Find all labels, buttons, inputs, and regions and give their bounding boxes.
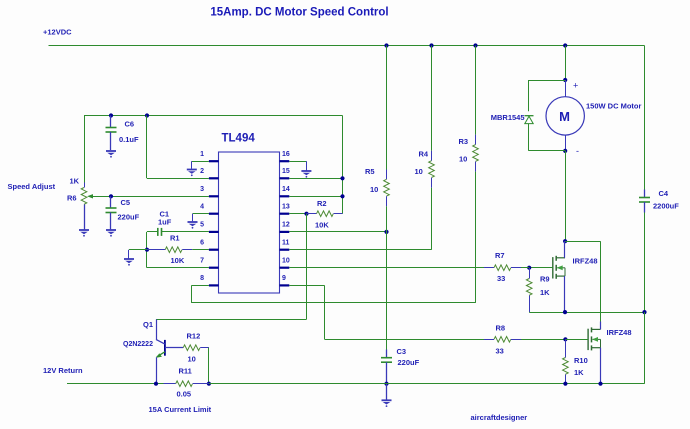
wire pin8 loop to R3 bbox=[192, 302, 476, 304]
svg-text:7: 7 bbox=[200, 258, 204, 265]
wire vref to pin2 bbox=[146, 116, 148, 179]
svg-text:5: 5 bbox=[200, 222, 204, 229]
wire feedback to Q1 bbox=[156, 319, 307, 321]
resistor R1 bbox=[165, 247, 182, 253]
wire feedback vertical bbox=[306, 214, 308, 320]
svg-text:Speed Adjust: Speed Adjust bbox=[8, 182, 56, 191]
svg-text:12V Return: 12V Return bbox=[43, 366, 83, 375]
svg-text:1K: 1K bbox=[70, 177, 80, 186]
svg-text:C4: C4 bbox=[659, 189, 669, 198]
wire M2 source bbox=[600, 348, 602, 384]
svg-text:R5: R5 bbox=[365, 167, 375, 176]
wire C4 drop bbox=[644, 46, 646, 190]
wire R2 lead right bbox=[334, 213, 343, 215]
resistor R7 bbox=[494, 265, 511, 271]
svg-text:10K: 10K bbox=[171, 256, 185, 265]
wire pin7 branch bbox=[147, 267, 209, 269]
wire R7 right bbox=[511, 267, 521, 269]
wire R6 bottom lead bbox=[84, 205, 86, 230]
resistor R11 bbox=[176, 381, 193, 387]
wire drain tie bbox=[565, 241, 600, 243]
svg-text:IRFZ48: IRFZ48 bbox=[607, 328, 632, 337]
ground R6 bbox=[79, 230, 89, 237]
svg-text:14: 14 bbox=[282, 186, 290, 193]
wire M2 gate lead bbox=[565, 339, 588, 341]
wire vref top rail bbox=[84, 115, 343, 117]
svg-text:1K: 1K bbox=[540, 288, 550, 297]
wire motor top stem bbox=[565, 80, 567, 97]
svg-text:C5: C5 bbox=[121, 198, 131, 207]
wire pin12 to R5 bbox=[289, 231, 386, 233]
svg-text:R6: R6 bbox=[67, 194, 77, 203]
svg-text:3: 3 bbox=[200, 186, 204, 193]
wire R9 bottom lead bbox=[529, 296, 531, 313]
wire R1 to pin6 bbox=[182, 249, 192, 251]
wire MBR left top bbox=[528, 80, 530, 111]
junction pin2 branch top bbox=[145, 113, 149, 117]
svg-text:R9: R9 bbox=[540, 275, 550, 284]
wire pin1 bbox=[192, 161, 209, 163]
wire 12V return rail left bbox=[67, 383, 164, 385]
resistor R5 bbox=[384, 179, 390, 196]
junction drains bbox=[563, 239, 567, 243]
wire R3 bottom bbox=[475, 162, 477, 172]
wire pin8 bbox=[192, 285, 209, 287]
svg-text:R2: R2 bbox=[317, 199, 327, 208]
junction R10 rail bbox=[563, 382, 567, 386]
ground pin1 bbox=[187, 170, 197, 177]
ground C6 bbox=[106, 151, 116, 158]
wire pin15 bbox=[289, 178, 342, 180]
ground C5 bbox=[106, 230, 116, 237]
wire motor to drain bbox=[565, 151, 567, 241]
wire pin16 bbox=[289, 161, 306, 163]
wire R12 right bbox=[200, 347, 209, 349]
wire +12VDC rail bbox=[49, 45, 645, 47]
svg-text:220uF: 220uF bbox=[118, 213, 140, 222]
svg-text:R7: R7 bbox=[495, 251, 505, 260]
wire pin4 bbox=[193, 213, 209, 215]
transistor Q1 bbox=[164, 340, 166, 356]
svg-text:4: 4 bbox=[200, 204, 204, 211]
wire vref left drop to pot bbox=[84, 116, 86, 183]
wire R1 ground jog bbox=[129, 249, 147, 251]
svg-text:R4: R4 bbox=[419, 150, 429, 159]
wire wiper to pin3 bbox=[111, 196, 209, 198]
wire pin13 bbox=[289, 213, 306, 215]
junction M2 gate bbox=[563, 337, 567, 341]
svg-text:Q2N2222: Q2N2222 bbox=[123, 341, 153, 348]
svg-text:10: 10 bbox=[415, 167, 423, 176]
wire M1 drain bbox=[564, 241, 566, 258]
wire pin14 bbox=[289, 196, 342, 198]
svg-text:R11: R11 bbox=[179, 367, 192, 376]
resistor R4 bbox=[429, 161, 435, 178]
wire R9 top lead bbox=[529, 268, 531, 279]
svg-text:16: 16 bbox=[282, 151, 290, 158]
svg-text:8: 8 bbox=[200, 275, 204, 282]
svg-text:150W DC Motor: 150W DC Motor bbox=[586, 102, 642, 111]
wire Q1 collector bbox=[156, 319, 158, 339]
svg-text:33: 33 bbox=[497, 274, 505, 283]
resistor R8 bbox=[494, 337, 511, 343]
pins 16-9 right stubs bbox=[280, 160, 290, 162]
svg-text:M: M bbox=[559, 109, 570, 124]
svg-text:15A Current Limit: 15A Current Limit bbox=[149, 405, 212, 414]
resistor R3 bbox=[473, 145, 479, 162]
svg-text:1uF: 1uF bbox=[158, 218, 172, 227]
svg-text:0.1uF: 0.1uF bbox=[119, 135, 139, 144]
resistor R12 bbox=[183, 345, 200, 351]
svg-text:220uF: 220uF bbox=[398, 358, 420, 367]
wire R8 row bbox=[325, 339, 485, 341]
wire R10 top lead bbox=[565, 339, 567, 357]
wire R4 bottom bbox=[431, 178, 433, 188]
wire 12V return rail right bbox=[193, 383, 209, 385]
svg-text:12: 12 bbox=[282, 222, 290, 229]
wire R5 top bbox=[386, 46, 388, 170]
wire Q1 base bbox=[165, 347, 183, 349]
svg-text:33: 33 bbox=[496, 347, 504, 356]
wiper arrow R6 bbox=[87, 194, 93, 198]
resistor R10 bbox=[563, 358, 569, 375]
svg-text:C6: C6 bbox=[125, 120, 135, 129]
svg-text:MBR1545: MBR1545 bbox=[491, 113, 525, 122]
svg-text:0.05: 0.05 bbox=[177, 390, 192, 399]
wire R2 lead left bbox=[307, 213, 317, 215]
resistor R6 pot bbox=[81, 188, 87, 205]
wire MBR top bbox=[529, 80, 565, 82]
wire C1 lead left bbox=[147, 231, 158, 233]
junction Q1 emitter rail bbox=[154, 382, 158, 386]
wire C1R1 left rail bbox=[146, 232, 148, 268]
junction C6 top bbox=[109, 113, 113, 117]
resistor R2 bbox=[317, 211, 334, 217]
svg-text:-: - bbox=[576, 146, 579, 156]
wire source rail bbox=[529, 312, 644, 314]
svg-text:R1: R1 bbox=[170, 234, 180, 243]
svg-text:6: 6 bbox=[200, 240, 204, 247]
diode MBR1545 bbox=[525, 115, 534, 117]
wire pin10 to R7 bbox=[289, 267, 484, 269]
svg-text:C3: C3 bbox=[397, 347, 407, 356]
wire pin11 to R4 bbox=[289, 249, 431, 251]
wire motor bottom stem bbox=[565, 135, 567, 151]
pins 1-8 left stubs bbox=[209, 160, 219, 162]
svg-text:10: 10 bbox=[282, 258, 290, 265]
svg-text:13: 13 bbox=[282, 204, 290, 211]
junction M1 source bbox=[563, 310, 567, 314]
junction R3 rail bbox=[473, 43, 477, 47]
capacitor C5 bbox=[110, 196, 112, 208]
junction R1 left bbox=[145, 248, 149, 252]
wire Q1 emitter bbox=[156, 357, 158, 383]
svg-text:1: 1 bbox=[200, 151, 204, 158]
svg-text:TL494: TL494 bbox=[222, 133, 256, 145]
ground pin16 bbox=[301, 171, 311, 178]
junction pin12-R5 bbox=[384, 230, 388, 234]
svg-text:IRFZ48: IRFZ48 bbox=[573, 257, 598, 266]
wire M1 source bbox=[564, 276, 566, 312]
wire R3 top bbox=[475, 46, 477, 135]
svg-text:R8: R8 bbox=[496, 323, 506, 332]
junction motor minus bbox=[563, 149, 567, 153]
junction pin15 bbox=[340, 176, 344, 180]
wire C3 ground stem bbox=[386, 384, 388, 400]
op-amp U1 TL494 body bbox=[219, 152, 280, 293]
junction C3 rail bbox=[384, 382, 388, 386]
capacitor C1 bbox=[157, 228, 159, 236]
ground C3 bbox=[382, 400, 392, 407]
junction R12 rail bbox=[207, 382, 211, 386]
svg-text:+: + bbox=[573, 81, 578, 91]
resistor R9 bbox=[526, 279, 532, 296]
wire bottom right riser bbox=[644, 312, 646, 384]
wire R4 top bbox=[431, 46, 433, 151]
wire R1 lead left bbox=[147, 249, 165, 251]
junction motor rail bbox=[563, 43, 567, 47]
junction pin13-R2 bbox=[304, 212, 308, 216]
svg-text:11: 11 bbox=[282, 240, 290, 247]
capacitor C4 bbox=[639, 197, 650, 199]
svg-text:10: 10 bbox=[370, 185, 378, 194]
wire M2 drain bbox=[600, 241, 602, 321]
motor M1 circle bbox=[546, 97, 584, 135]
svg-text:2: 2 bbox=[200, 168, 204, 175]
wire R10 bottom lead bbox=[565, 375, 567, 384]
svg-text:9: 9 bbox=[282, 275, 286, 282]
wire vref right drop bbox=[342, 116, 344, 214]
svg-text:2200uF: 2200uF bbox=[653, 202, 679, 211]
svg-text:10: 10 bbox=[459, 155, 467, 164]
svg-text:1K: 1K bbox=[574, 368, 584, 377]
wire MBR left bottom bbox=[528, 124, 530, 151]
svg-text:10: 10 bbox=[188, 355, 196, 364]
wire C1 to pin5 bbox=[162, 231, 209, 233]
wire R8 right bbox=[511, 339, 521, 341]
wire pin9 bbox=[289, 285, 324, 287]
svg-text:15Amp. DC Motor Speed Control: 15Amp. DC Motor Speed Control bbox=[210, 7, 388, 19]
svg-text:R10: R10 bbox=[574, 356, 588, 365]
svg-text:10K: 10K bbox=[315, 221, 329, 230]
wire motor drop bbox=[565, 46, 567, 81]
junction motor plus bbox=[563, 78, 567, 82]
junction pin14 bbox=[340, 194, 344, 198]
wire R5-C3 vertical bbox=[386, 196, 388, 206]
transistor Q2 IRFZ48 top bbox=[553, 256, 565, 279]
svg-text:R3: R3 bbox=[459, 137, 469, 146]
ground R1 bbox=[124, 259, 134, 266]
junction R9 top bbox=[527, 266, 531, 270]
junction M2 source rail bbox=[598, 382, 602, 386]
svg-text:Q1: Q1 bbox=[143, 320, 153, 329]
junction C4 source rail bbox=[642, 310, 646, 314]
junction R5 rail bbox=[384, 43, 388, 47]
junction R4 rail bbox=[429, 43, 433, 47]
capacitor C6 bbox=[110, 116, 112, 128]
transistor Q3 IRFZ48 bottom bbox=[588, 327, 600, 350]
svg-text:15: 15 bbox=[282, 168, 290, 175]
ground pin4 bbox=[188, 222, 198, 229]
svg-text:+12VDC: +12VDC bbox=[43, 28, 72, 37]
capacitor C3 bbox=[381, 357, 392, 359]
junction wiper-C5 bbox=[109, 194, 113, 198]
svg-text:aircraftdesigner: aircraftdesigner bbox=[471, 413, 528, 422]
svg-text:R12: R12 bbox=[187, 332, 201, 341]
wire M1 gate lead bbox=[529, 267, 553, 269]
